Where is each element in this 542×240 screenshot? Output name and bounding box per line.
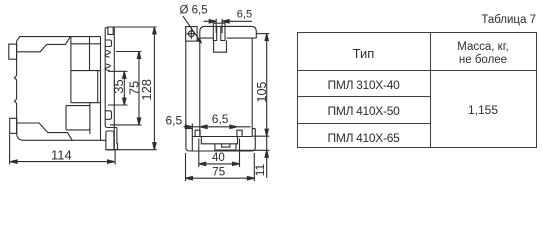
svg-text:35: 35 [111, 79, 126, 93]
svg-text:114: 114 [51, 148, 72, 163]
svg-text:105: 105 [255, 82, 269, 103]
svg-text:75: 75 [212, 167, 225, 179]
svg-text:6,5: 6,5 [212, 112, 229, 126]
svg-text:11: 11 [253, 163, 267, 176]
svg-text:40: 40 [212, 152, 225, 164]
svg-text:6,5: 6,5 [237, 8, 252, 20]
svg-text:128: 128 [139, 79, 154, 101]
svg-text:6,5: 6,5 [166, 113, 183, 127]
svg-text:Ø 6,5: Ø 6,5 [180, 4, 208, 16]
